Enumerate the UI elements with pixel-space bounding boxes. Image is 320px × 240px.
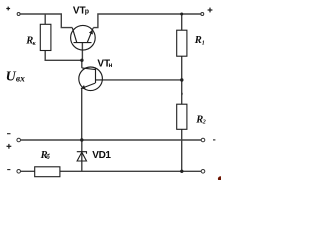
svg-text:1: 1 [202,41,205,47]
svg-text:р: р [85,8,89,15]
svg-text:VD1: VD1 [92,150,111,161]
svg-text:б: б [46,153,50,161]
svg-text:2: 2 [202,119,206,125]
svg-text:вх: вх [16,75,25,85]
svg-text:к: к [33,41,37,47]
svg-text:н: н [109,62,113,69]
svg-text:R: R [194,35,202,46]
